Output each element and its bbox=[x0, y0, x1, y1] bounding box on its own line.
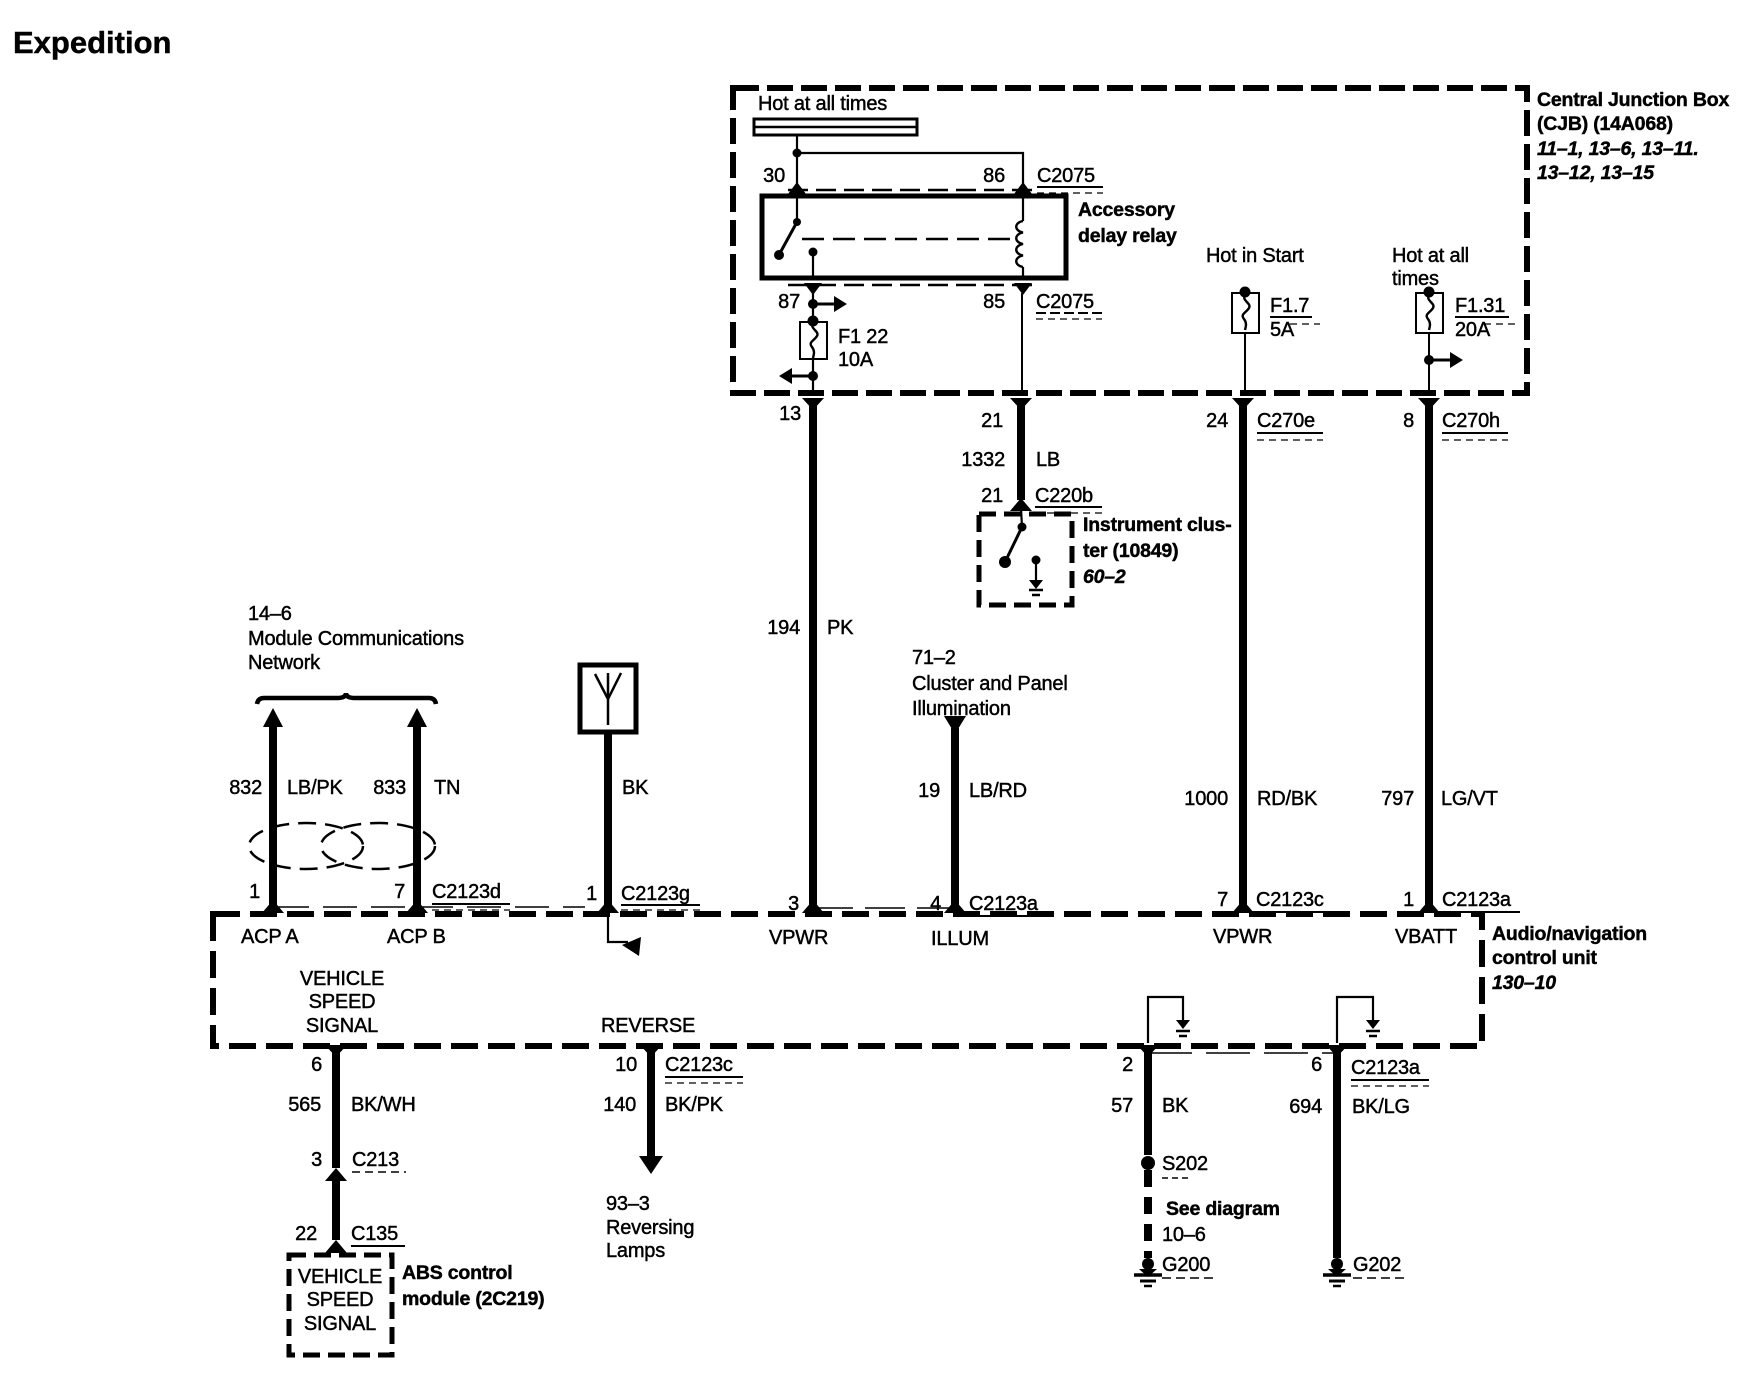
audio/navigation labels bbox=[1492, 923, 1647, 994]
svg-text:10A: 10A bbox=[838, 349, 874, 371]
svg-text:7: 7 bbox=[1217, 889, 1228, 911]
dashed line across relay top pins bbox=[788, 189, 1032, 192]
internal ground at pin 2 bbox=[1148, 997, 1190, 1043]
svg-text:Accessory: Accessory bbox=[1078, 199, 1175, 221]
wire 833 TN bbox=[413, 724, 421, 905]
instrument cluster label bbox=[1083, 514, 1232, 588]
svg-text:Hot at all: Hot at all bbox=[1392, 245, 1469, 267]
svg-text:13: 13 bbox=[779, 403, 801, 425]
svg-text:8: 8 bbox=[1403, 410, 1414, 432]
wire 19 LB/RD top arrow bbox=[944, 716, 966, 734]
wire 87 to fuse bbox=[812, 293, 814, 321]
label F1.31 bbox=[1455, 295, 1516, 324]
svg-text:(CJB) (14A068): (CJB) (14A068) bbox=[1537, 113, 1673, 135]
svg-text:C135: C135 bbox=[351, 1223, 398, 1245]
antenna bbox=[580, 665, 636, 732]
wire echo line above audio box border (middle) bbox=[813, 907, 955, 909]
svg-text:times: times bbox=[1392, 268, 1439, 290]
connector C270h bbox=[1442, 410, 1508, 440]
svg-text:VEHICLE: VEHICLE bbox=[298, 1266, 382, 1288]
svg-text:6: 6 bbox=[311, 1054, 322, 1076]
svg-text:19: 19 bbox=[918, 780, 940, 802]
wire echo line above audio box border (left) bbox=[275, 906, 585, 908]
svg-text:10–6: 10–6 bbox=[1162, 1224, 1206, 1246]
svg-text:194: 194 bbox=[767, 617, 800, 639]
branch arrow right bbox=[813, 296, 847, 312]
label See diagram 10-6 bbox=[1162, 1198, 1280, 1246]
svg-text:20A: 20A bbox=[1455, 319, 1491, 341]
svg-text:See diagram: See diagram bbox=[1166, 1198, 1280, 1220]
branch node below F1.31 bbox=[1424, 355, 1434, 365]
svg-text:30: 30 bbox=[763, 165, 785, 187]
wire from bus to pin 30 bbox=[796, 135, 798, 188]
branch node at 87 bbox=[808, 299, 818, 309]
branch arrow left bbox=[779, 368, 813, 384]
connector C2123a (bottom) bbox=[1351, 1057, 1429, 1086]
accessory delay relay box bbox=[762, 196, 1066, 278]
svg-text:11–1, 13–6, 13–11.: 11–1, 13–6, 13–11. bbox=[1537, 138, 1699, 160]
svg-text:24: 24 bbox=[1206, 410, 1228, 432]
fuse F1.7 bbox=[1232, 287, 1259, 334]
pin 1 connector arrow bbox=[1418, 900, 1440, 913]
svg-text:VBATT: VBATT bbox=[1395, 926, 1457, 948]
connector C2123c bbox=[1256, 889, 1334, 912]
connector C2123g bbox=[621, 883, 700, 910]
case ground below C2123g bbox=[608, 917, 641, 956]
Central Junction Box dashed enclosure bbox=[733, 88, 1527, 393]
svg-text:4: 4 bbox=[930, 893, 941, 915]
relay switch bbox=[774, 198, 818, 276]
wire 19 LB/RD bbox=[951, 728, 959, 905]
wire 565 BK/WH bbox=[332, 1047, 340, 1168]
svg-text:21: 21 bbox=[981, 410, 1003, 432]
pin 85 connector arrow bbox=[1014, 283, 1032, 295]
svg-text:Cluster and Panel: Cluster and Panel bbox=[912, 673, 1068, 695]
svg-text:Hot at all times: Hot at all times bbox=[758, 93, 887, 115]
junction node bbox=[793, 149, 802, 158]
pin 24 arrow below CJB bbox=[1232, 398, 1254, 410]
splice S202 bbox=[1141, 1156, 1155, 1170]
cluster ground bbox=[1029, 556, 1043, 596]
svg-text:3: 3 bbox=[311, 1149, 322, 1171]
svg-text:REVERSE: REVERSE bbox=[601, 1015, 695, 1037]
svg-text:F1.31: F1.31 bbox=[1455, 295, 1505, 317]
cluster switch bbox=[999, 508, 1027, 568]
branch arrow right bbox=[1429, 352, 1463, 368]
label 14-6 Module Communications Network bbox=[248, 603, 464, 674]
svg-text:VPWR: VPWR bbox=[769, 927, 828, 949]
svg-text:93–3: 93–3 bbox=[606, 1193, 650, 1215]
svg-text:BK: BK bbox=[1162, 1095, 1189, 1117]
C220b connector arrow bbox=[1010, 498, 1032, 511]
wire 85 to CJB border bbox=[1021, 293, 1023, 394]
svg-text:G200: G200 bbox=[1162, 1254, 1210, 1276]
dashed line across relay bottom pins bbox=[788, 284, 1032, 287]
pin 3 connector arrow bbox=[802, 900, 824, 913]
svg-text:Lamps: Lamps bbox=[606, 1240, 665, 1262]
pin 87 connector arrow bbox=[804, 283, 822, 295]
wire C213 to C135 bbox=[332, 1178, 340, 1240]
svg-text:C2123c: C2123c bbox=[665, 1054, 733, 1076]
wire branch to pin 86 bbox=[797, 153, 1023, 188]
fuse F1 22 bbox=[800, 316, 827, 360]
wire F1.7 down bbox=[1244, 333, 1246, 394]
connector C270e bbox=[1257, 410, 1323, 440]
wire echo line below audio box border (right) bbox=[1148, 1052, 1337, 1054]
svg-text:57: 57 bbox=[1111, 1095, 1133, 1117]
svg-text:86: 86 bbox=[983, 165, 1005, 187]
svg-text:71–2: 71–2 bbox=[912, 647, 956, 669]
arrow to reversing lamps bbox=[639, 1156, 663, 1174]
arrow up wire 833 bbox=[407, 708, 427, 727]
label G202 bbox=[1353, 1254, 1409, 1278]
arrow up wire 832 bbox=[263, 708, 283, 727]
svg-text:C2123g: C2123g bbox=[621, 883, 690, 905]
pin 86 connector arrow bbox=[1014, 182, 1032, 194]
svg-text:832: 832 bbox=[229, 777, 262, 799]
ACP A connector arrow bbox=[262, 900, 284, 913]
svg-text:delay relay: delay relay bbox=[1078, 225, 1177, 247]
svg-text:1: 1 bbox=[249, 881, 260, 903]
svg-text:LB: LB bbox=[1036, 449, 1060, 471]
svg-text:C2075: C2075 bbox=[1037, 165, 1095, 187]
wire 57 BK bbox=[1144, 1047, 1152, 1155]
wire 1000 RD/BK bbox=[1239, 400, 1247, 905]
ABS box internal labels bbox=[298, 1266, 382, 1335]
ground G200 bbox=[1134, 1258, 1162, 1286]
svg-text:85: 85 bbox=[983, 291, 1005, 313]
svg-text:Central Junction Box: Central Junction Box bbox=[1537, 89, 1729, 111]
svg-text:BK/WH: BK/WH bbox=[351, 1094, 416, 1116]
svg-text:SIGNAL: SIGNAL bbox=[306, 1015, 378, 1037]
svg-text:BK/LG: BK/LG bbox=[1352, 1096, 1410, 1118]
C213 connector arrow bbox=[325, 1168, 347, 1181]
svg-text:VPWR: VPWR bbox=[1213, 926, 1272, 948]
pin 30 connector arrow bbox=[788, 182, 806, 194]
pin 8 arrow below CJB bbox=[1418, 398, 1440, 410]
svg-text:Hot in Start: Hot in Start bbox=[1206, 245, 1304, 267]
svg-text:Expedition: Expedition bbox=[13, 25, 171, 60]
svg-text:PK: PK bbox=[827, 617, 854, 639]
svg-text:21: 21 bbox=[981, 485, 1003, 507]
svg-text:C2123c: C2123c bbox=[1256, 889, 1324, 911]
svg-text:SPEED: SPEED bbox=[307, 1289, 374, 1311]
svg-text:control unit: control unit bbox=[1492, 947, 1598, 969]
svg-text:5A: 5A bbox=[1270, 319, 1295, 341]
label VEHICLE SPEED SIGNAL bbox=[300, 968, 384, 1037]
dashed wire S202 to G200 bbox=[1144, 1170, 1152, 1258]
pin 6 arrow below audio unit (right) bbox=[1326, 1045, 1348, 1057]
pin 4 connector arrow bbox=[944, 900, 966, 913]
svg-text:ABS control: ABS control bbox=[402, 1262, 512, 1284]
svg-text:Illumination: Illumination bbox=[912, 698, 1011, 720]
svg-text:S202: S202 bbox=[1162, 1153, 1208, 1175]
svg-text:C270e: C270e bbox=[1257, 410, 1315, 432]
connector C2123c (reverse) bbox=[665, 1054, 743, 1083]
label 71-2 Cluster and Panel Illumination bbox=[912, 647, 1068, 720]
svg-text:1332: 1332 bbox=[961, 449, 1005, 471]
svg-text:87: 87 bbox=[778, 291, 800, 313]
svg-text:VEHICLE: VEHICLE bbox=[300, 968, 384, 990]
pin 6 arrow below audio unit bbox=[325, 1045, 347, 1057]
svg-text:C213: C213 bbox=[352, 1149, 399, 1171]
svg-text:C270h: C270h bbox=[1442, 410, 1500, 432]
svg-text:Audio/navigation: Audio/navigation bbox=[1492, 923, 1647, 945]
branch node below fuse bbox=[808, 371, 818, 381]
svg-text:ILLUM: ILLUM bbox=[931, 928, 989, 950]
svg-text:F1.7: F1.7 bbox=[1270, 295, 1309, 317]
svg-text:565: 565 bbox=[288, 1094, 321, 1116]
svg-text:10: 10 bbox=[615, 1054, 637, 1076]
pin 13 arrow below CJB bbox=[802, 398, 824, 410]
svg-text:6: 6 bbox=[1311, 1054, 1322, 1076]
internal ground at pin 6 bbox=[1337, 997, 1380, 1043]
brace over network wires bbox=[257, 693, 436, 704]
svg-text:LB/RD: LB/RD bbox=[969, 780, 1027, 802]
ACP B connector arrow bbox=[406, 900, 428, 913]
svg-text:1: 1 bbox=[586, 883, 597, 905]
wire F1.31 down bbox=[1428, 333, 1430, 394]
svg-text:RD/BK: RD/BK bbox=[1257, 788, 1318, 810]
svg-text:Module Communications: Module Communications bbox=[248, 628, 464, 650]
svg-text:833: 833 bbox=[373, 777, 406, 799]
svg-text:130–10: 130–10 bbox=[1492, 972, 1556, 994]
connector C2075 (bottom) bbox=[1036, 291, 1102, 319]
label Accessory delay relay bbox=[1078, 199, 1177, 247]
wire 194 PK bbox=[809, 400, 817, 905]
label F1.7 bbox=[1270, 295, 1320, 324]
connector C2123d bbox=[432, 881, 510, 910]
svg-text:13–12, 13–15: 13–12, 13–15 bbox=[1537, 162, 1655, 184]
svg-text:G202: G202 bbox=[1353, 1254, 1401, 1276]
svg-text:22: 22 bbox=[295, 1223, 317, 1245]
svg-text:1: 1 bbox=[1403, 889, 1414, 911]
svg-text:F1 22: F1 22 bbox=[838, 326, 888, 348]
ground G202 bbox=[1323, 1258, 1351, 1286]
svg-text:C2075: C2075 bbox=[1036, 291, 1094, 313]
svg-text:7: 7 bbox=[394, 881, 405, 903]
pin 21 arrow below CJB bbox=[1010, 398, 1032, 410]
wire BK (antenna) bbox=[604, 732, 612, 905]
wire below fuse bbox=[812, 359, 814, 394]
svg-text:LG/VT: LG/VT bbox=[1441, 788, 1498, 810]
relay coil bbox=[1016, 198, 1023, 276]
C2123g connector arrow bbox=[597, 900, 619, 913]
svg-text:140: 140 bbox=[603, 1094, 636, 1116]
connector C220b bbox=[1035, 485, 1102, 513]
svg-text:C2123a: C2123a bbox=[1442, 889, 1512, 911]
svg-text:BK: BK bbox=[622, 777, 649, 799]
svg-text:Network: Network bbox=[248, 652, 321, 674]
svg-text:C2123a: C2123a bbox=[969, 893, 1039, 915]
label 93-3 Reversing Lamps bbox=[606, 1193, 694, 1262]
svg-text:ACP B: ACP B bbox=[387, 926, 446, 948]
svg-text:14–6: 14–6 bbox=[248, 603, 292, 625]
svg-text:1000: 1000 bbox=[1184, 788, 1228, 810]
label G200 bbox=[1162, 1254, 1218, 1278]
svg-text:LB/PK: LB/PK bbox=[287, 777, 344, 799]
wire 832 LB/PK bbox=[269, 724, 277, 905]
fuse F1.31 bbox=[1416, 287, 1443, 334]
svg-text:ter (10849): ter (10849) bbox=[1083, 540, 1178, 562]
svg-text:BK/PK: BK/PK bbox=[665, 1094, 724, 1116]
connector C2075 (top) bbox=[1037, 165, 1103, 193]
svg-text:C220b: C220b bbox=[1035, 485, 1093, 507]
connector C2123a (ILLUM) bbox=[969, 893, 1047, 916]
instrument cluster box bbox=[979, 514, 1072, 605]
relay mechanical link (dashed) bbox=[802, 238, 1012, 241]
ABS control module label bbox=[402, 1262, 544, 1310]
svg-text:Reversing: Reversing bbox=[606, 1217, 694, 1239]
wire 797 LG/VT bbox=[1425, 400, 1433, 905]
ABS control module box bbox=[289, 1255, 392, 1355]
svg-text:60–2: 60–2 bbox=[1083, 566, 1126, 588]
connector C135 bbox=[351, 1223, 405, 1246]
C135 connector arrow bbox=[325, 1240, 347, 1253]
label Hot at all times (right) bbox=[1392, 245, 1469, 290]
svg-text:C2123a: C2123a bbox=[1351, 1057, 1421, 1079]
CJB label bbox=[1537, 89, 1729, 184]
wire 694 BK/LG bbox=[1333, 1047, 1341, 1258]
pin 7 connector arrow bbox=[1232, 900, 1254, 913]
svg-text:SPEED: SPEED bbox=[309, 991, 376, 1013]
svg-text:ACP A: ACP A bbox=[241, 926, 299, 948]
wire 1332 LB bbox=[1017, 400, 1025, 500]
svg-text:SIGNAL: SIGNAL bbox=[304, 1313, 376, 1335]
svg-text:797: 797 bbox=[1381, 788, 1414, 810]
svg-text:C2123d: C2123d bbox=[432, 881, 501, 903]
audio/navigation control unit box bbox=[213, 914, 1482, 1046]
svg-text:694: 694 bbox=[1289, 1096, 1322, 1118]
power bus bar bbox=[754, 119, 917, 135]
connector C213 bbox=[352, 1149, 406, 1172]
svg-text:TN: TN bbox=[434, 777, 460, 799]
pin 2 arrow below audio unit bbox=[1137, 1045, 1159, 1057]
svg-text:2: 2 bbox=[1122, 1054, 1133, 1076]
connector C2123a (VBATT) bbox=[1442, 889, 1520, 912]
svg-text:Instrument clus-: Instrument clus- bbox=[1083, 514, 1232, 536]
wire 140 BK/PK bbox=[647, 1047, 655, 1160]
pin 10 arrow below audio unit bbox=[640, 1045, 662, 1057]
svg-text:module (2C219): module (2C219) bbox=[402, 1288, 544, 1310]
twisted pair symbol bbox=[249, 823, 435, 869]
